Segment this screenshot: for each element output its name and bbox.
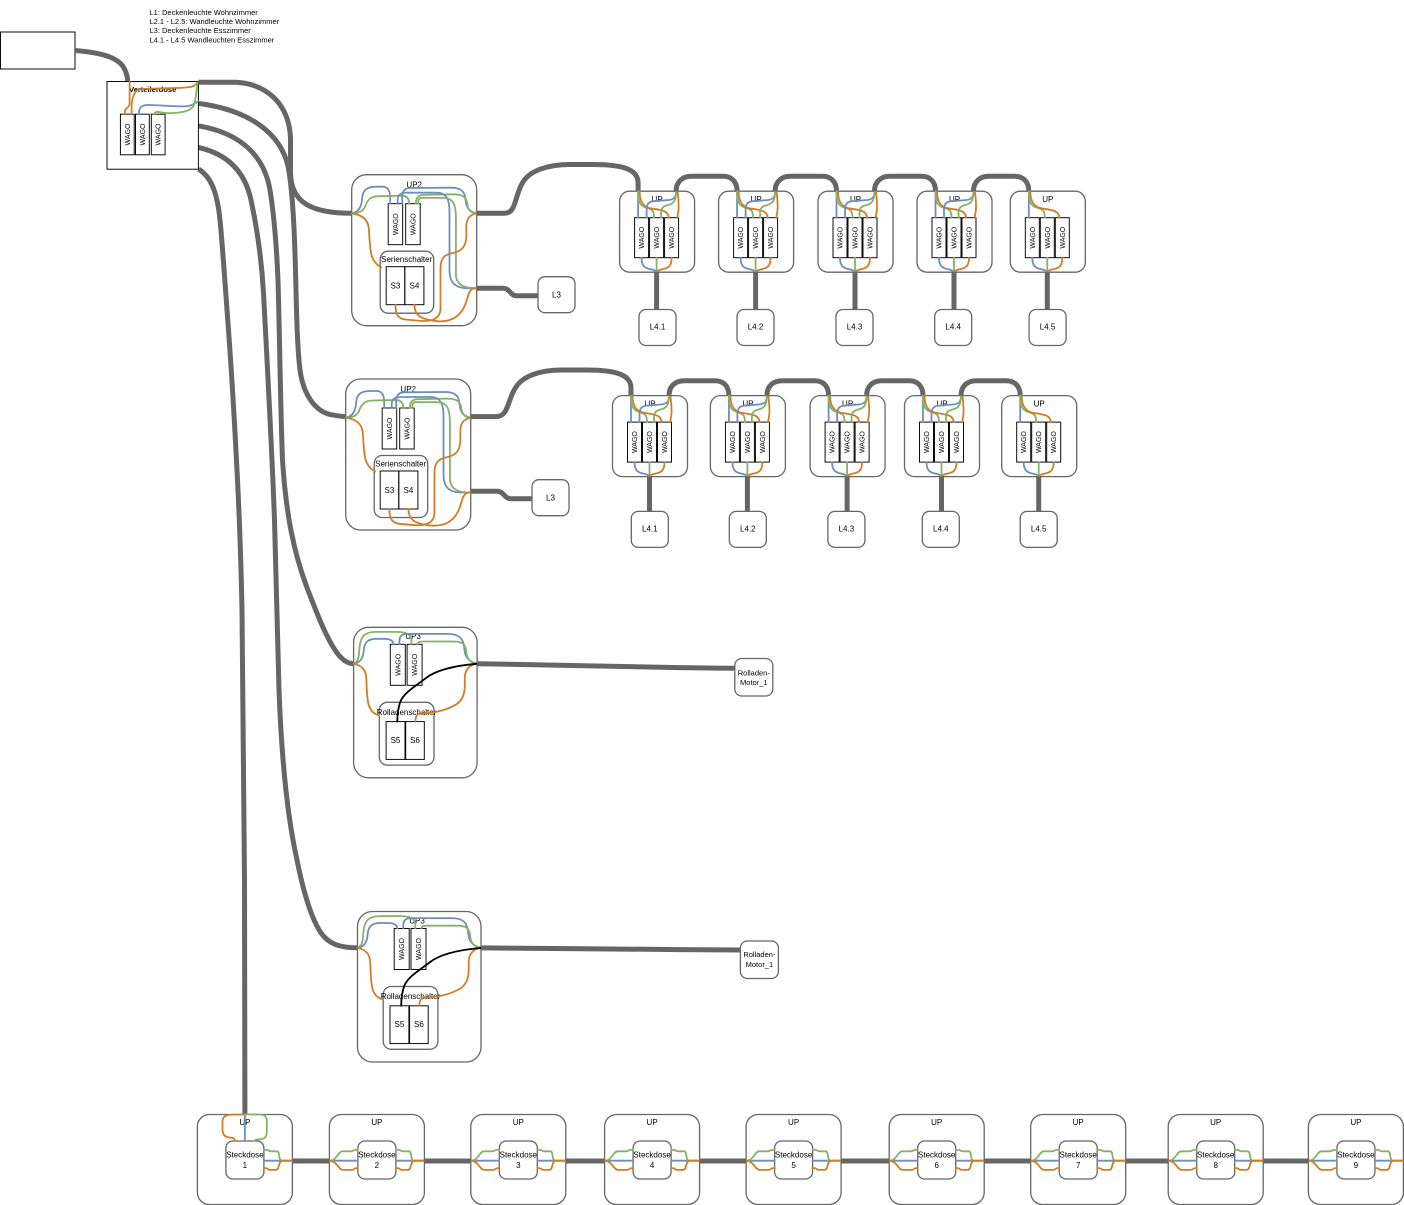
- wire orange feed to WAGO 1: [125, 82, 130, 115]
- wire UP 4 to UP 5 row 1: [974, 176, 1029, 191]
- wire UP 4 down to lamp row 2: [939, 477, 944, 512]
- flush box UP 2 (lamp chain row 2): [710, 396, 785, 477]
- flush box UP 1 (lamp chain row 2): [613, 396, 688, 477]
- lamp L4.1 row 1: [639, 310, 676, 346]
- svg-text:L4.5: L4.5: [1040, 323, 1056, 332]
- svg-text:Steckdose: Steckdose: [775, 1150, 813, 1159]
- left wires Steckdose 5: [746, 1150, 775, 1170]
- wire Steckdose 4 to Steckdose 5: [700, 1159, 747, 1164]
- right wires Steckdose 6: [956, 1150, 985, 1170]
- wire UP 5 down to lamp row 2: [1036, 477, 1041, 512]
- WAGO connector 2 in Verteilerdose: [136, 114, 150, 155]
- svg-text:8: 8: [1213, 1161, 1218, 1170]
- flush box UP 3 (lamp chain row 2): [810, 396, 885, 477]
- flush box UP 1 (lamp chain row 1): [620, 191, 695, 272]
- svg-text:Steckdose: Steckdose: [500, 1150, 538, 1159]
- lamp L3 (row1): [538, 277, 575, 313]
- flush box UP2 with Serienschalter S3 S4 (dining room): [346, 379, 471, 530]
- left wires Steckdose 8: [1168, 1150, 1197, 1170]
- svg-text:L4.1 - L4.5 Wandleuchten Esszi: L4.1 - L4.5 Wandleuchten Esszimmer: [150, 35, 275, 44]
- svg-text:3: 3: [516, 1161, 521, 1170]
- wire UP 2 to UP 3 row 2: [767, 381, 829, 396]
- wire Steckdose 1 to Steckdose 2: [292, 1159, 329, 1164]
- wire UP 4 down to lamp row 1: [952, 272, 957, 309]
- WAGO connector 3 in Verteilerdose: [151, 114, 165, 155]
- svg-text:L4.3: L4.3: [839, 524, 855, 533]
- wire UP 3 to UP 4 row 2: [867, 381, 923, 396]
- right wires Steckdose 2: [396, 1150, 425, 1170]
- wire orange WAGO 1 to top-right outlet: [132, 82, 198, 114]
- wire UP 3 down to lamp row 2: [845, 477, 850, 512]
- flush box UP 3 (lamp chain row 1): [818, 191, 893, 272]
- wire blue WAGO 2 to right outlet: [139, 102, 198, 115]
- left wires Steckdose 9: [1308, 1150, 1337, 1170]
- wire UP 1 down to lamp row 1: [654, 272, 659, 309]
- wire UP3 box1 to Rolladen-Motor_1: [477, 664, 735, 669]
- wire UP 5 down to lamp row 1: [1045, 272, 1050, 309]
- wire UP 2 down to lamp row 1: [753, 272, 758, 309]
- svg-text:L2.1 - L2.5: Wandleuchte Wohnz: L2.1 - L2.5: Wandleuchte Wohnzimmer: [150, 17, 280, 26]
- lamp L4.5 row 2: [1020, 511, 1057, 547]
- right wires Steckdose 9: [1375, 1150, 1404, 1170]
- flush box UP with Steckdose 7: [1031, 1115, 1126, 1205]
- svg-text:Steckdose: Steckdose: [1337, 1150, 1375, 1159]
- wire UP 2 down to lamp row 2: [745, 477, 750, 512]
- svg-text:6: 6: [934, 1161, 939, 1170]
- right wires Steckdose 3: [537, 1150, 566, 1170]
- wire Steckdose 2 to Steckdose 3: [424, 1159, 470, 1164]
- flush box UP with Steckdose 3: [471, 1115, 566, 1205]
- motor box Rolladen-Motor_1 (shutter 1): [735, 659, 773, 697]
- exit wires UP 1 row 2: [640, 396, 672, 423]
- flush box UP 2 (lamp chain row 1): [719, 191, 794, 272]
- flush box UP with Steckdose 6: [889, 1115, 984, 1205]
- flush box UP with Steckdose 8: [1168, 1115, 1263, 1205]
- lamp L4.5 row 1: [1029, 310, 1066, 346]
- wire UP 1 down to lamp row 2: [647, 477, 652, 512]
- right wires Steckdose 7: [1097, 1150, 1126, 1170]
- left wires Steckdose 2: [329, 1150, 358, 1170]
- exit wires UP 1 row 1: [647, 191, 679, 218]
- svg-text:Steckdose: Steckdose: [1197, 1150, 1235, 1159]
- svg-text:WAGO: WAGO: [156, 123, 163, 145]
- svg-text:L3: L3: [552, 291, 561, 300]
- exit wires UP 3 row 1: [845, 191, 877, 218]
- flush box UP 5 (lamp chain row 2): [1002, 396, 1077, 477]
- wire green WAGO 3 to top-right outlet: [155, 83, 198, 115]
- svg-text:L4.4: L4.4: [945, 323, 961, 332]
- wire UP 3 to UP 4 row 1: [875, 176, 936, 191]
- svg-text:Steckdose: Steckdose: [633, 1150, 671, 1159]
- flush box UP with Steckdose 2: [329, 1115, 424, 1205]
- svg-text:Rolladen-: Rolladen-: [738, 669, 771, 678]
- svg-text:4: 4: [650, 1161, 655, 1170]
- wire supply to Verteilerdose: [75, 51, 128, 82]
- svg-text:L4.1: L4.1: [650, 323, 666, 332]
- svg-text:Motor_1: Motor_1: [746, 960, 774, 969]
- flush box UP 4 (lamp chain row 2): [905, 396, 980, 477]
- wire Steckdose 5 to Steckdose 6: [841, 1159, 889, 1164]
- flush box UP with Steckdose 1: [197, 1115, 292, 1205]
- svg-text:7: 7: [1076, 1161, 1081, 1170]
- flush box UP2 with Serienschalter S3 S4 (living room): [352, 175, 477, 326]
- svg-text:Steckdose: Steckdose: [1060, 1150, 1098, 1159]
- left wires Steckdose 7: [1031, 1150, 1060, 1170]
- right wires Steckdose 1: [264, 1150, 293, 1170]
- right wires Steckdose 8: [1235, 1150, 1264, 1170]
- svg-text:L3: Deckenleuchte Esszimmer: L3: Deckenleuchte Esszimmer: [150, 26, 252, 35]
- wire UP 4 to UP 5 row 2: [961, 381, 1020, 396]
- flush box UP3 with Rolladenschalter S5 S6 (shutter 1): [354, 627, 478, 778]
- lamp L3 (row2): [532, 480, 569, 516]
- svg-text:L4.5: L4.5: [1031, 524, 1047, 533]
- left wires Steckdose 3: [471, 1150, 500, 1170]
- wire UP2 box2 to lamp L3: [471, 491, 532, 499]
- wire Steckdose 6 to Steckdose 7: [984, 1159, 1030, 1164]
- svg-text:L4.1: L4.1: [642, 524, 658, 533]
- main supply box: [1, 32, 76, 69]
- wire UP 1 to UP 2 row 2: [669, 381, 729, 396]
- wire UP2 box1 to lamp chain row1: [477, 165, 638, 214]
- svg-text:9: 9: [1354, 1161, 1359, 1170]
- svg-text:WAGO: WAGO: [125, 123, 132, 145]
- svg-text:L1: Deckenleuchte Wohnzimmer: L1: Deckenleuchte Wohnzimmer: [150, 8, 259, 17]
- wire Verteilerdose to UP2 box 2: [198, 103, 345, 416]
- svg-text:Steckdose: Steckdose: [918, 1150, 956, 1159]
- lamp L4.4 row 1: [935, 310, 972, 346]
- svg-text:1: 1: [243, 1161, 248, 1170]
- wire Steckdose 8 to Steckdose 9: [1263, 1159, 1308, 1164]
- flush box UP 5 (lamp chain row 1): [1010, 191, 1085, 272]
- wire UP2 box1 to lamp L3: [477, 288, 538, 296]
- wire UP 1 to UP 2 row 1: [676, 176, 737, 191]
- lamp L4.2 row 1: [737, 310, 774, 346]
- svg-text:L4.3: L4.3: [847, 323, 863, 332]
- flush box UP with Steckdose 5: [746, 1115, 841, 1205]
- left wires Steckdose 4: [605, 1150, 634, 1170]
- legend text: [150, 8, 280, 45]
- exit wires UP 3 row 2: [837, 396, 869, 423]
- junction box Verteilerdose: [107, 82, 198, 170]
- wire Steckdose 3 to Steckdose 4: [566, 1159, 605, 1164]
- wire UP2 box2 to lamp chain row2: [471, 370, 631, 417]
- wire Verteilerdose to UP2 box 1: [198, 82, 351, 213]
- wire UP 2 to UP 3 row 1: [775, 176, 836, 191]
- exit wires UP 4 row 1: [944, 191, 976, 218]
- svg-text:L4.2: L4.2: [740, 524, 756, 533]
- svg-text:Motor_1: Motor_1: [740, 678, 768, 687]
- svg-text:Steckdose: Steckdose: [226, 1150, 264, 1159]
- wire green feed Steckdose 1: [245, 1114, 267, 1141]
- lamp L4.1 row 2: [631, 511, 668, 547]
- lamp L4.4 row 2: [922, 511, 959, 547]
- exit wires UP 4 row 2: [932, 396, 964, 423]
- flush box UP 4 (lamp chain row 1): [917, 191, 992, 272]
- lamp L4.2 row 2: [729, 511, 766, 547]
- wire UP 3 down to lamp row 1: [853, 272, 858, 309]
- svg-text:Steckdose: Steckdose: [358, 1150, 396, 1159]
- motor box Rolladen-Motor_1 (shutter 2): [740, 941, 778, 979]
- svg-text:L4.4: L4.4: [933, 524, 949, 533]
- left wires Steckdose 6: [889, 1150, 918, 1170]
- svg-text:L4.2: L4.2: [748, 323, 764, 332]
- wire Verteilerdose to Steckdose 1: [199, 169, 245, 1114]
- lamp L4.3 row 2: [828, 511, 865, 547]
- flush box UP with Steckdose 4: [605, 1115, 700, 1205]
- wire blue feed Steckdose 1: [244, 1115, 246, 1142]
- exit wires UP 2 row 2: [737, 396, 769, 423]
- flush box UP with Steckdose 9: [1308, 1115, 1403, 1205]
- svg-text:2: 2: [375, 1161, 380, 1170]
- svg-text:L3: L3: [546, 494, 555, 503]
- wire Verteilerdose to UP3 box 1: [198, 126, 353, 664]
- wire orange feed Steckdose 1: [223, 1114, 245, 1141]
- svg-text:Rolladen-: Rolladen-: [743, 950, 776, 959]
- right wires Steckdose 5: [813, 1150, 842, 1170]
- lamp L4.3 row 1: [836, 310, 873, 346]
- wire Verteilerdose to UP3 box 2: [198, 148, 357, 948]
- exit wires UP 2 row 1: [746, 191, 778, 218]
- wire Steckdose 7 to Steckdose 8: [1126, 1159, 1169, 1164]
- svg-text:5: 5: [791, 1161, 796, 1170]
- wire UP3 box2 to Rolladen-Motor_1: [481, 948, 740, 950]
- WAGO connector 1 in Verteilerdose: [120, 114, 134, 155]
- svg-text:WAGO: WAGO: [140, 123, 147, 145]
- right wires Steckdose 4: [671, 1150, 700, 1170]
- flush box UP3 with Rolladenschalter S5 S6 (shutter 2): [358, 912, 482, 1063]
